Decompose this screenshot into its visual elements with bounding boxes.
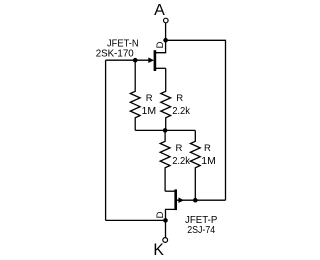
junction dot: gate node of Q2 [193, 198, 198, 203]
resistor R 2.2k (lower left) [160, 130, 170, 191]
wire K node to terminal [165, 220, 167, 237]
svg-text:R: R [176, 143, 183, 154]
wire A terminal to drain node [165, 23, 167, 40]
junction dot: gate node of Q1 [133, 58, 138, 63]
svg-text:K: K [153, 240, 164, 259]
junction dot: mid node [163, 128, 168, 133]
junction dot: drain node of Q1 [163, 38, 168, 43]
svg-text:R: R [176, 93, 183, 104]
terminal K [163, 238, 168, 243]
wire right rail bottom to Q2 gate [195, 199, 225, 201]
wire bottom left to K node [106, 219, 166, 221]
svg-text:R: R [204, 143, 211, 154]
transistor Q1 JFET-N 2SK-170 [148, 41, 165, 72]
svg-text:2SK-170: 2SK-170 [96, 48, 134, 60]
wire top rail [166, 39, 226, 41]
svg-text:2.2k: 2.2k [172, 155, 190, 167]
svg-text:D: D [155, 41, 166, 48]
terminal A [164, 18, 169, 23]
svg-text:2SJ-74: 2SJ-74 [187, 224, 215, 236]
resistor R 1M (lower right) [190, 130, 200, 200]
junction dot: K node [163, 218, 168, 223]
wire Q1 gate line [106, 59, 149, 61]
svg-text:A: A [154, 2, 165, 19]
svg-text:R: R [146, 93, 153, 104]
svg-text:2.2k: 2.2k [172, 105, 190, 117]
svg-text:1M: 1M [142, 105, 157, 117]
resistor R 1M (upper left) [130, 60, 140, 130]
wire right rail [225, 40, 227, 200]
transistor Q2 JFET-P 2SJ-74 [165, 189, 193, 220]
svg-text:1M: 1M [201, 155, 216, 167]
resistor R 2.2k (upper right) [161, 68, 171, 130]
wire left rail [105, 60, 107, 220]
svg-text:D: D [155, 211, 166, 218]
wire mid rail [135, 129, 195, 131]
